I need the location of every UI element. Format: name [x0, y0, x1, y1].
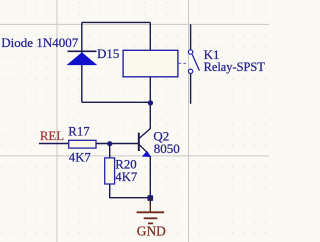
- wire R17 to base junction: [96, 143, 138, 145]
- node junction coil/diode/collector: [148, 100, 153, 105]
- svg-text:R17: R17: [68, 124, 90, 138]
- resistor R17: [69, 140, 96, 148]
- major grid line vertical x=57: [56, 0, 58, 242]
- node junction base/R20: [107, 141, 112, 146]
- ground bar 3: [148, 222, 153, 224]
- wire collector vertical: [149, 102, 151, 128]
- diode D15 cathode bar: [68, 50, 97, 52]
- ground bar 2: [144, 217, 158, 219]
- wire top (diode top to relay coil top): [82, 21, 151, 23]
- wire bottom-left (diode bottom to junction): [82, 101, 151, 103]
- wire emitter vertical: [149, 156, 151, 198]
- relay K1 contact top pin: [190, 24, 192, 49]
- svg-text:Diode 1N4007: Diode 1N4007: [1, 35, 78, 50]
- transistor Q2 collector diagonal: [139, 128, 151, 138]
- ground stem: [149, 198, 151, 205]
- transistor Q2 emitter arrow: [142, 151, 151, 157]
- relay K1 actuator dashed link: [179, 62, 188, 64]
- diode D15 triangle: [67, 52, 98, 65]
- relay K1 contact top circle: [188, 50, 192, 54]
- wire R20 top lead: [109, 144, 111, 158]
- svg-text:Relay-SPST: Relay-SPST: [204, 60, 266, 74]
- svg-text:4K7: 4K7: [69, 150, 92, 164]
- ground bar 1: [137, 211, 165, 213]
- wire R20 bottom lead + bottom wire to emitter junction: [110, 184, 151, 198]
- svg-text:REL: REL: [40, 129, 64, 143]
- major grid line vertical x=188.5: [188, 0, 190, 242]
- svg-text:GND: GND: [137, 223, 166, 238]
- transistor Q2 emitter diagonal: [139, 145, 148, 154]
- major grid line horizontal y=24.4: [0, 23, 269, 25]
- relay K1 coil: [123, 50, 178, 77]
- svg-text:8050: 8050: [154, 141, 180, 156]
- relay K1 contact blade: [192, 54, 199, 70]
- major grid line horizontal y=155.9: [0, 155, 269, 157]
- resistor R20: [105, 158, 115, 184]
- relay K1 contact bottom circle: [188, 69, 192, 73]
- wire coil bottom pin: [149, 77, 151, 103]
- transistor Q2 base bar: [138, 133, 140, 151]
- relay K1 contact bottom pin: [190, 74, 192, 104]
- svg-text:4K7: 4K7: [115, 170, 138, 184]
- svg-text:D15: D15: [97, 46, 119, 61]
- wire REL to R17: [39, 143, 69, 145]
- wire left vertical through diode: [81, 22, 83, 102]
- wire coil top pin: [149, 22, 151, 50]
- node junction emitter/R20/ground: [147, 195, 153, 201]
